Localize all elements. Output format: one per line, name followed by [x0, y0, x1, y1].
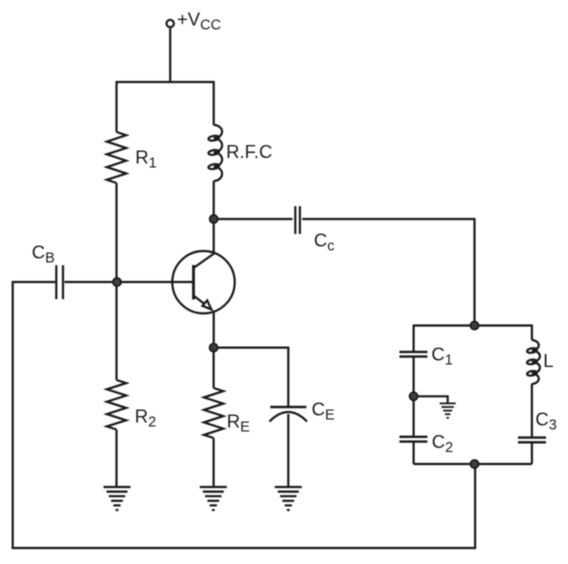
svg-text:+VCC: +VCC [177, 9, 221, 34]
wire: RFC to collector node [213, 181, 215, 219]
transistor Q1 [172, 251, 234, 313]
node: collector [210, 215, 218, 223]
capacitor C1 [399, 352, 427, 357]
wire: CB to base node [65, 281, 117, 283]
wire: tank top to L [531, 325, 533, 341]
wire: base node to R2 [115, 282, 117, 380]
wire: tank top rail [414, 324, 532, 326]
inductor RFC [208, 125, 222, 181]
svg-text:L: L [543, 350, 553, 371]
wire: top rail to RFC [213, 81, 215, 125]
node: emitter [210, 344, 218, 352]
wire: Cc to right corner [302, 218, 474, 220]
wire: emitter node to RE [213, 348, 215, 388]
svg-text:C2: C2 [432, 431, 453, 456]
wire: collector node to transistor [213, 219, 215, 254]
svg-text:R1: R1 [135, 147, 156, 172]
svg-text:C1: C1 [431, 344, 452, 369]
node: C1/C2 junction [410, 392, 418, 400]
wire: VCC terminal to top rail [169, 28, 171, 82]
wire: C3 to tank bottom rail [531, 442, 533, 464]
wire: C2 to tank bottom rail [413, 442, 415, 464]
wire: collector node to Cc [214, 218, 293, 220]
capacitor Cc [295, 206, 300, 234]
node: base [113, 278, 121, 286]
capacitor C2 [399, 437, 427, 442]
wire: right drop to tank top node [473, 218, 475, 326]
svg-text:C3: C3 [535, 408, 556, 433]
resistor RE [204, 388, 223, 438]
+VCC terminal [167, 20, 174, 27]
wire: C1 to junction node [413, 357, 415, 397]
wire: emitter node to CE branch [214, 348, 289, 407]
svg-text:RE: RE [227, 410, 250, 435]
wire: tank top to C1 [413, 325, 415, 352]
wire: CE to ground [287, 414, 289, 487]
inductor L [527, 340, 540, 384]
svg-text:R2: R2 [135, 405, 156, 430]
wire: left feedback vertical [12, 281, 14, 548]
wire: R2 to ground [115, 430, 117, 488]
wire: base wire [117, 281, 194, 283]
wire: junction to C2 [413, 396, 415, 437]
node: tank bottom [470, 460, 478, 468]
capacitor CE [270, 407, 308, 422]
resistor R2 [107, 380, 126, 430]
capacitor CB [56, 265, 63, 299]
wire: R1 to base node [115, 183, 117, 282]
resistor R1 [107, 132, 126, 183]
capacitor C3 [518, 438, 546, 443]
ground (RE) [200, 487, 227, 510]
ground (R2) [104, 487, 131, 510]
wire: tank bottom rail [414, 463, 532, 465]
wire: emitter to emitter node [213, 311, 215, 348]
wire: top rail to R1 [115, 81, 117, 132]
wire: left rail to CB [13, 281, 56, 283]
wire: RE to ground [213, 438, 215, 487]
wire: junction to tank ground tap [414, 396, 448, 403]
wire: top rail [117, 81, 214, 83]
ground (CE) [275, 487, 302, 510]
wire: feedback riser to tank bottom node [474, 464, 476, 549]
svg-text:CB: CB [32, 242, 55, 267]
ground (tank) [440, 403, 456, 417]
svg-text:R.F.C: R.F.C [226, 141, 272, 162]
svg-text:CE: CE [312, 399, 335, 424]
wire: bottom feedback horizontal [12, 547, 476, 549]
wire: L to C3 [531, 384, 533, 438]
svg-text:Cc: Cc [314, 229, 335, 254]
node: tank top [470, 321, 478, 329]
